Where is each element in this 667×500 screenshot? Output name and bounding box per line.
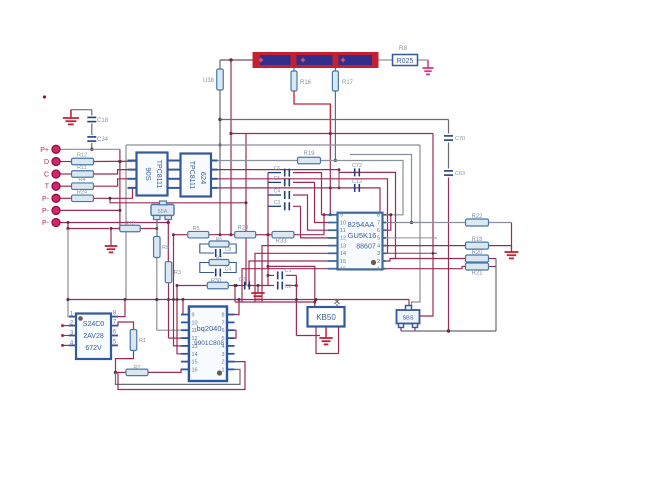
svg-text:C2: C2 (284, 284, 291, 290)
svg-text:R33: R33 (275, 239, 287, 245)
svg-text:C12: C12 (352, 179, 362, 185)
svg-text:R11: R11 (77, 165, 87, 171)
svg-text:14: 14 (340, 251, 346, 257)
svg-text:KB50: KB50 (316, 313, 336, 322)
svg-text:C6: C6 (274, 166, 281, 172)
svg-text:U38: U38 (203, 78, 215, 84)
svg-text:R5: R5 (192, 226, 199, 232)
svg-text:11: 11 (340, 228, 346, 234)
svg-text:2: 2 (377, 259, 380, 265)
svg-text:R16: R16 (300, 80, 312, 86)
svg-text:C3: C3 (274, 200, 281, 206)
svg-text:R21: R21 (471, 271, 483, 277)
svg-text:C70: C70 (455, 136, 465, 142)
svg-text:T: T (45, 184, 50, 191)
svg-text:TPC8111: TPC8111 (155, 160, 162, 189)
svg-text:C72: C72 (352, 163, 362, 169)
svg-text:5: 5 (377, 236, 380, 242)
svg-text:R19: R19 (303, 151, 315, 157)
svg-text:R17: R17 (342, 80, 354, 86)
svg-text:13: 13 (340, 243, 346, 249)
svg-text:7: 7 (377, 220, 380, 226)
svg-text:R1: R1 (139, 338, 146, 344)
svg-text:R8: R8 (399, 45, 408, 52)
svg-text:P-: P- (42, 196, 50, 203)
svg-text:3: 3 (221, 352, 224, 358)
svg-text:672V: 672V (85, 345, 102, 352)
svg-text:6: 6 (377, 228, 380, 234)
svg-text:10: 10 (340, 220, 346, 226)
svg-text:C1: C1 (284, 268, 291, 274)
svg-text:12: 12 (340, 236, 346, 242)
svg-text:C7: C7 (238, 277, 245, 283)
svg-text:C5: C5 (274, 176, 281, 182)
svg-text:16: 16 (192, 367, 198, 373)
svg-text:9901C808: 9901C808 (194, 340, 224, 347)
svg-text:bq2040: bq2040 (196, 324, 221, 333)
svg-text:SBS: SBS (402, 316, 413, 322)
svg-text:R2: R2 (134, 365, 141, 371)
svg-text:P+: P+ (40, 147, 49, 154)
svg-text:9: 9 (192, 313, 195, 319)
svg-text:R7: R7 (216, 256, 223, 262)
svg-text:GU5K16: GU5K16 (348, 231, 377, 240)
svg-text:R6: R6 (216, 237, 223, 243)
svg-text:90S: 90S (144, 167, 153, 180)
svg-text:15: 15 (192, 360, 198, 366)
svg-text:R12: R12 (77, 153, 87, 159)
svg-text:3: 3 (377, 251, 380, 257)
svg-text:9: 9 (340, 213, 343, 219)
svg-text:C4: C4 (225, 267, 232, 273)
svg-text:14: 14 (192, 352, 198, 358)
svg-text:15: 15 (340, 259, 346, 265)
svg-text:P-: P- (42, 220, 50, 227)
svg-text:C18: C18 (97, 118, 109, 124)
svg-text:1: 1 (377, 267, 380, 273)
svg-text:C8: C8 (225, 247, 232, 253)
svg-text:8: 8 (221, 313, 224, 319)
svg-text:R24: R24 (77, 189, 87, 195)
svg-text:P-: P- (42, 208, 50, 215)
svg-text:D: D (44, 159, 49, 166)
svg-text:S24C0: S24C0 (83, 321, 105, 328)
svg-text:C4: C4 (274, 189, 281, 195)
svg-text:R30: R30 (211, 278, 221, 284)
svg-text:2AV28: 2AV28 (83, 333, 104, 340)
svg-text:R18: R18 (471, 237, 483, 243)
svg-text:6: 6 (221, 328, 224, 334)
svg-text:R20: R20 (471, 250, 483, 256)
svg-text:TPC8111: TPC8111 (188, 161, 195, 190)
svg-text:R9: R9 (162, 245, 169, 251)
svg-text:7: 7 (221, 320, 224, 326)
svg-text:C: C (44, 172, 49, 179)
svg-text:R025: R025 (397, 58, 414, 65)
svg-text:R22: R22 (471, 214, 483, 220)
svg-text:4: 4 (377, 243, 380, 249)
svg-text:C63: C63 (455, 171, 465, 177)
svg-text:R3: R3 (174, 270, 181, 276)
svg-text:624: 624 (199, 172, 208, 185)
svg-text:8: 8 (377, 213, 380, 219)
svg-text:8254AA: 8254AA (348, 220, 375, 229)
svg-text:R13: R13 (125, 221, 134, 227)
svg-text:R4: R4 (78, 177, 85, 183)
svg-text:88607: 88607 (356, 244, 376, 251)
svg-text:R23: R23 (237, 226, 249, 232)
svg-text:2: 2 (221, 360, 224, 366)
svg-text:16: 16 (340, 267, 346, 273)
svg-text:55A: 55A (158, 209, 168, 215)
svg-text:C34: C34 (97, 137, 109, 143)
